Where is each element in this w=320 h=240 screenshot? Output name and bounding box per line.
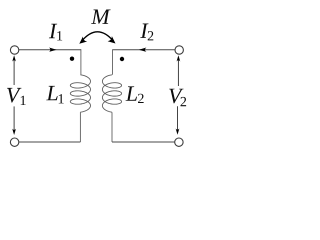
voltage arrow V1 lower head <box>12 129 16 135</box>
wire bottom-left horizontal <box>19 141 81 143</box>
terminal top-right <box>175 46 183 54</box>
voltage arrow V2 upper head <box>177 55 181 61</box>
polarity dot left <box>70 57 74 61</box>
voltage arrow V2 upper shaft <box>177 58 179 87</box>
current arrow I1 head <box>49 48 57 52</box>
mutual coupling arrow M arc <box>81 32 113 42</box>
voltage arrow V2 lower head <box>176 129 180 135</box>
inductor L1 coil <box>70 75 90 112</box>
label L1 <box>46 86 57 100</box>
terminal bottom-left <box>10 138 18 146</box>
wire bottom-right horizontal <box>112 141 175 143</box>
label I1 <box>49 24 57 38</box>
polarity dot right <box>120 57 124 61</box>
wire right coil entry vertical <box>112 49 114 75</box>
mutual coupling arrow right head <box>108 36 116 43</box>
terminal bottom-right <box>175 138 183 146</box>
wire left coil exit vertical <box>79 112 81 142</box>
wire left coil entry vertical <box>80 49 82 75</box>
voltage arrow V1 upper shaft <box>13 58 15 86</box>
label L2 <box>126 86 137 100</box>
label V2 <box>169 89 183 104</box>
current arrow I2 head <box>139 48 147 52</box>
mutual coupling arrow left head <box>79 36 87 43</box>
label M <box>91 9 111 23</box>
wire right coil exit vertical <box>111 112 113 142</box>
inductor L2 coil <box>102 75 121 112</box>
wire top-left horizontal <box>19 49 81 51</box>
label I2 <box>140 23 148 37</box>
voltage arrow V1 lower shaft <box>13 106 15 132</box>
voltage arrow V2 lower shaft <box>177 106 179 132</box>
label V1 <box>7 88 21 103</box>
voltage arrow V1 upper head <box>12 55 16 61</box>
terminal top-left <box>10 46 18 54</box>
wire top-right horizontal <box>113 49 175 51</box>
